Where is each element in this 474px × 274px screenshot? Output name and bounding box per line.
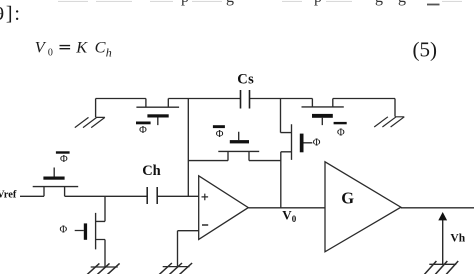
- ground below M6: [86, 263, 119, 274]
- wire ground stem top-left: [95, 99, 97, 118]
- ground top-right: [374, 117, 404, 127]
- ground top-left: [75, 117, 105, 127]
- ground below op-amp inverting input: [159, 263, 192, 274]
- svg-text:p: p: [314, 0, 322, 6]
- transistor M1 (series input switch): [33, 168, 78, 197]
- svg-text:Φ: Φ: [60, 224, 68, 235]
- svg-text:Vref: Vref: [0, 190, 17, 201]
- wire vertical rail-to-M5: [280, 99, 282, 133]
- wire Vref input: [20, 195, 44, 197]
- wire top rail: [96, 98, 395, 100]
- svg-text:V: V: [282, 208, 292, 223]
- clipped text line at top of page (glyph bottoms): [58, 1, 462, 2]
- svg-text:Cs: Cs: [237, 72, 254, 88]
- minus input mark: [202, 224, 208, 226]
- transistor M6 (pull-down switch): [75, 196, 105, 267]
- wire vertical rail-to-plus-input: [187, 99, 189, 197]
- svg-text:g: g: [398, 0, 406, 6]
- label phi-bar of M3: [334, 122, 347, 124]
- svg-text:0: 0: [48, 48, 53, 59]
- svg-text:Φ: Φ: [60, 154, 68, 165]
- transistor M3 (top-right switch): [302, 99, 344, 126]
- svg-text:h: h: [106, 46, 112, 60]
- plus input mark: [202, 194, 209, 201]
- wire M4 source/drain row: [188, 160, 280, 162]
- transistor M4 (switch under Cs): [188, 132, 280, 161]
- wire ground stem top-right: [394, 99, 396, 117]
- wire M1 to Ch: [65, 195, 147, 197]
- op-amp U1: [199, 176, 249, 240]
- ground below Vh arrow: [424, 261, 458, 274]
- svg-text:Φ: Φ: [139, 125, 147, 136]
- transistor M2 (top-left switch): [136, 99, 179, 126]
- svg-text:Vh: Vh: [450, 232, 465, 244]
- equation V0 = K Ch: [35, 37, 112, 59]
- transistor M5 (feedback switch, vertical): [281, 124, 313, 208]
- label phi-bar of M2: [136, 122, 151, 125]
- svg-text:Φ: Φ: [216, 129, 224, 140]
- amplifier U2 G: [325, 162, 401, 252]
- wire op-amp output to G: [248, 207, 325, 209]
- svg-text:g: g: [375, 0, 383, 6]
- wire G output: [401, 207, 474, 209]
- svg-text:g: g: [226, 0, 234, 6]
- svg-text:0: 0: [292, 214, 297, 224]
- output arrow Vh: [442, 220, 444, 265]
- wire Ch to op-amp: [157, 195, 198, 197]
- label phi-bar of M1: [56, 151, 70, 153]
- label phi-bar of M4: [213, 125, 225, 128]
- capacitor Ch: [147, 187, 157, 204]
- wire M5 to output node: [280, 152, 282, 208]
- svg-text:Φ: Φ: [337, 127, 345, 138]
- svg-text:K: K: [75, 37, 88, 56]
- svg-text:Φ: Φ: [313, 137, 321, 148]
- svg-text:Ch: Ch: [142, 163, 161, 179]
- svg-text:G: G: [341, 188, 354, 207]
- capacitor Cs: [241, 90, 250, 109]
- wire inverting input to ground: [178, 231, 199, 268]
- svg-text:9]:: 9]:: [0, 3, 22, 25]
- svg-text:C: C: [95, 37, 107, 56]
- svg-text:(5): (5): [413, 37, 438, 61]
- svg-text:p: p: [181, 0, 189, 6]
